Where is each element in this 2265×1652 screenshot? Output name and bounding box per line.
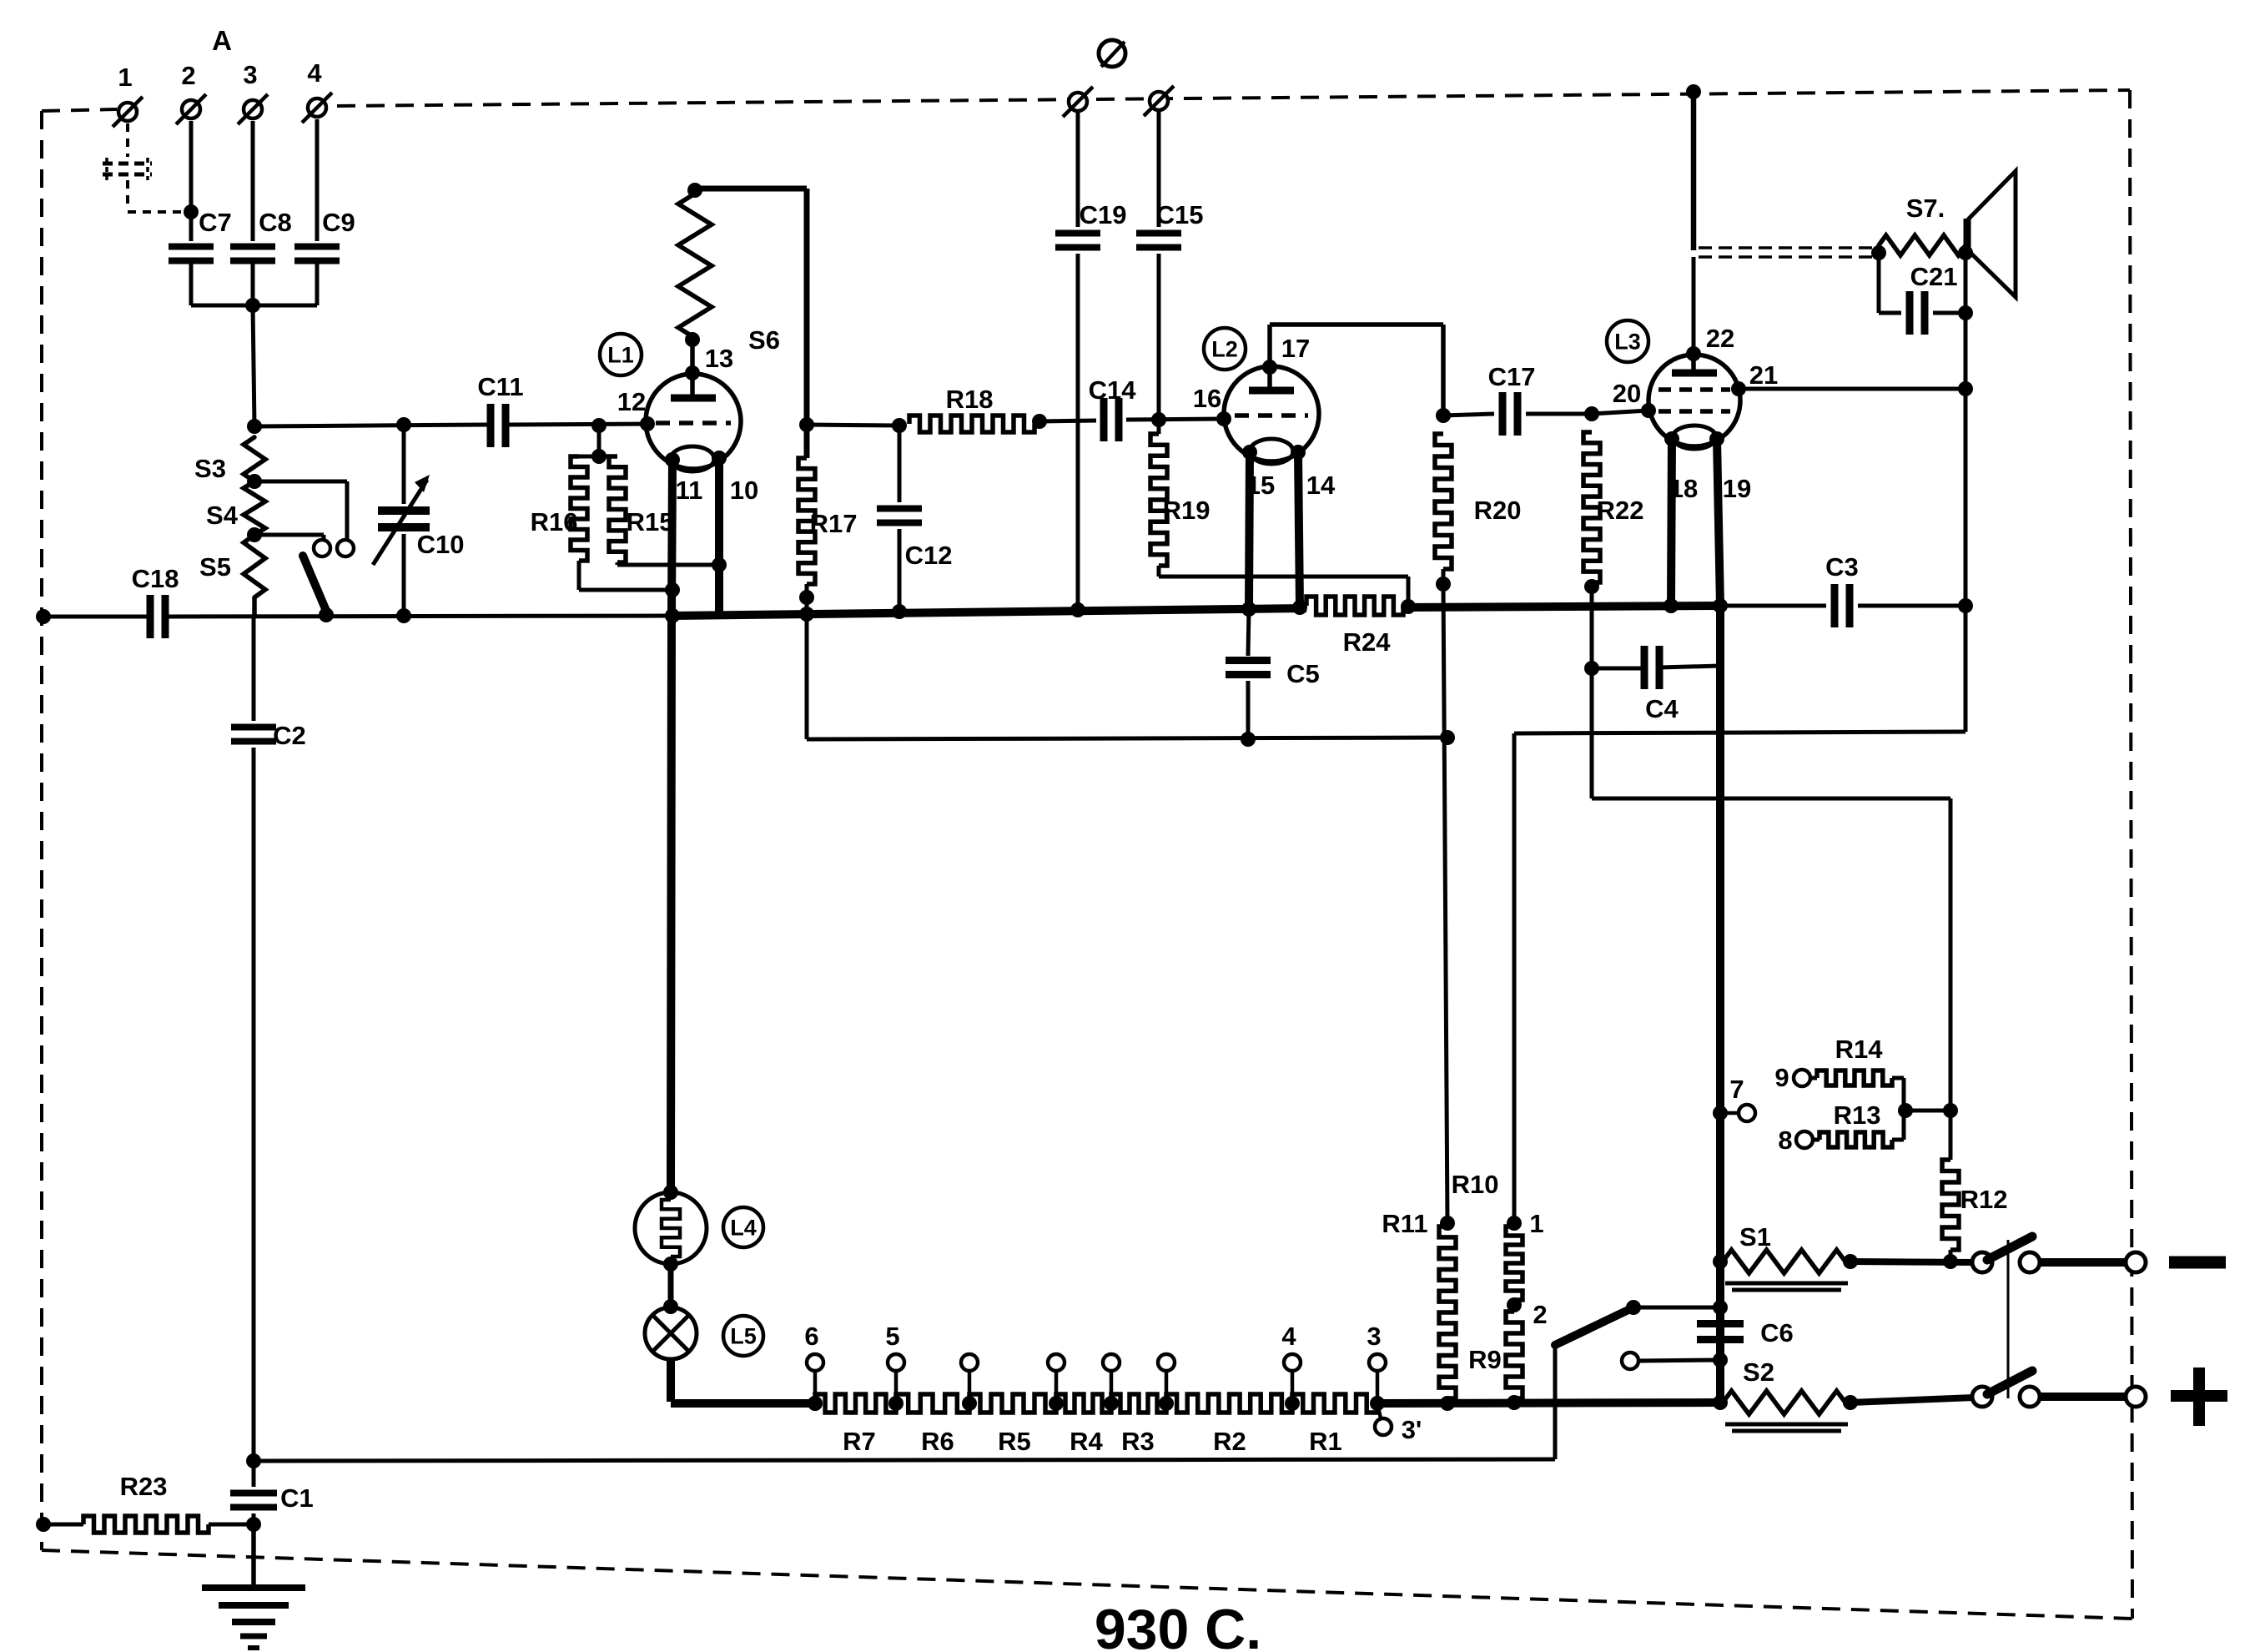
wire down to pin22 (1692, 257, 1696, 354)
svg-text:R5: R5 (998, 1427, 1031, 1456)
bottom bus to S2 (1377, 1403, 1720, 1403)
speaker double line (1699, 248, 1879, 257)
ground symbol (202, 1588, 305, 1648)
wire C14 to L2 grid (1126, 419, 1224, 420)
svg-text:S4: S4 (206, 501, 239, 530)
switch lower blade (1987, 1371, 2032, 1394)
svg-text:S5: S5 (199, 552, 231, 582)
wire R18 to C14 (1039, 421, 1096, 421)
svg-text:C12: C12 (905, 541, 953, 570)
tube L1 plate (671, 373, 716, 398)
svg-text:L3: L3 (1614, 330, 1641, 355)
svg-text:C1: C1 (280, 1483, 314, 1513)
wire terminal3 to C8 (251, 121, 255, 241)
switch lower output bar (2041, 1387, 2146, 1407)
lamp L4 envelope (635, 1192, 707, 1264)
svg-text:S1: S1 (1739, 1222, 1771, 1252)
node C5 bottom (1241, 732, 1256, 747)
node S2 right (1843, 1395, 1858, 1410)
node speaker column pin21 (1958, 381, 1973, 396)
node C19 on bus (1070, 602, 1085, 617)
svg-text:R23: R23 (120, 1472, 168, 1501)
node below C8 (245, 298, 260, 313)
pin 11 lead (665, 452, 702, 615)
svg-text:R4: R4 (1070, 1427, 1103, 1456)
wire L4 to L5 (663, 1264, 678, 1314)
node R20 bottom (1436, 569, 1451, 592)
switch lower pivot (1972, 1387, 1992, 1407)
terminal 3prime (1375, 1403, 1422, 1444)
svg-text:1: 1 (1529, 1209, 1543, 1238)
node R9 bottom on bus (1507, 1395, 1522, 1410)
wire AVC line A (807, 738, 1447, 739)
resistor R22 (1583, 432, 1643, 582)
chain tap terminal 6 (804, 1322, 823, 1411)
svg-text:C3: C3 (1825, 552, 1859, 582)
tube L1 grid (dashed) (656, 421, 731, 426)
tube L1 cathode (671, 446, 714, 471)
chain tap terminal 4 (1281, 1322, 1301, 1411)
minus symbol (2169, 1257, 2226, 1269)
terminal 9 (1774, 1063, 1810, 1092)
node R17 on bus (799, 607, 814, 622)
speaker horn (1966, 171, 2016, 297)
return wire up to switch (1553, 1345, 1558, 1459)
pin 17 node (1262, 334, 1310, 375)
wire C1 to ground (251, 1524, 256, 1587)
svg-text:8: 8 (1778, 1126, 1792, 1155)
capacitor C9 (294, 208, 355, 261)
contact circle tap1 (337, 540, 354, 557)
svg-text:R2: R2 (1213, 1427, 1246, 1456)
wire B down to R10 (1513, 733, 1517, 1223)
tube L2 plate (1249, 366, 1294, 390)
svg-text:L5: L5 (730, 1324, 757, 1349)
svg-text:C19: C19 (1080, 200, 1127, 229)
wire joining C7 C8 C9 bottoms (191, 261, 317, 305)
svg-text:S3: S3 (194, 454, 226, 483)
capacitor C15 line (1157, 110, 1161, 420)
antenna terminal 4 (302, 58, 332, 123)
pin 14 lead (1291, 445, 1336, 607)
svg-text:5: 5 (885, 1322, 899, 1351)
pin 13 node (685, 344, 733, 380)
lamp L4 filament (662, 1200, 680, 1257)
svg-text:C11: C11 (477, 372, 523, 401)
resistor chain R7-R1 (815, 1394, 1377, 1413)
svg-text:R13: R13 (1834, 1100, 1881, 1130)
svg-text:R7: R7 (843, 1427, 876, 1456)
coil S4 (206, 481, 265, 535)
svg-text:R6: R6 (921, 1427, 954, 1456)
svg-text:L1: L1 (607, 343, 634, 368)
wire R22 column down to line C (1590, 668, 1594, 798)
resistor R24 (1306, 597, 1416, 657)
svg-text:C6: C6 (1760, 1318, 1794, 1347)
pin 21 node (1731, 360, 1778, 396)
node S1 right (1843, 1254, 1858, 1269)
node above C1 (246, 1453, 261, 1468)
tube L2 grid (dashed) (1235, 413, 1308, 418)
svg-text:1: 1 (118, 63, 132, 92)
svg-text:R19: R19 (1163, 496, 1211, 525)
node S7 right (1958, 245, 1973, 260)
wire terminal4 to C9 (315, 119, 320, 241)
svg-text:C18: C18 (132, 564, 179, 593)
svg-text:15: 15 (1246, 471, 1275, 500)
capacitor C2 (231, 617, 306, 1461)
capacitor C17 (1443, 362, 1592, 436)
pin 19 lead (1709, 431, 1751, 606)
svg-text:C9: C9 (322, 208, 355, 237)
capacitor C4 (1592, 646, 1720, 723)
resistor R19 (1150, 420, 1210, 566)
svg-text:3: 3 (243, 60, 257, 89)
pin 20 node (1613, 379, 1656, 418)
svg-text:L4: L4 (730, 1216, 757, 1241)
svg-text:R11: R11 (1382, 1209, 1427, 1238)
antenna terminal 1 (113, 63, 143, 127)
wire C down to R13/R14 node (1949, 798, 1953, 1111)
node R23 left on border (36, 1517, 51, 1532)
resistor R18 (909, 385, 1047, 432)
svg-text:2: 2 (181, 61, 195, 90)
svg-text:R24: R24 (1343, 627, 1392, 657)
svg-text:18: 18 (1669, 474, 1698, 503)
node R23 C1 junction (246, 1517, 261, 1532)
node chain start (808, 1396, 823, 1411)
terminal 8 (1778, 1126, 1813, 1155)
node 1 (R10 top) (1507, 1209, 1544, 1238)
node C17 right (R22 top) (1584, 406, 1599, 421)
svg-text:14: 14 (1306, 471, 1336, 500)
node S7 left (1871, 245, 1886, 260)
svg-text:A: A (212, 25, 232, 56)
svg-text:C2: C2 (273, 721, 306, 750)
antenna terminal 3 (238, 60, 268, 124)
resistor R16 (531, 456, 599, 561)
capacitor C6 (1697, 1318, 1794, 1347)
svg-text:R12: R12 (1960, 1185, 2008, 1214)
wire R19 bottom to R24 right (1159, 566, 1408, 607)
wire main grid line L1 (254, 424, 647, 426)
svg-text:12: 12 (617, 387, 646, 416)
node C21 right (1958, 305, 1973, 320)
svg-text:R17: R17 (810, 509, 858, 538)
svg-text:17: 17 (1281, 334, 1310, 363)
tap node S4/S5 (247, 527, 262, 542)
node R22 bottom (1584, 579, 1599, 594)
resistor R11 (1382, 1209, 1456, 1398)
switch lower contact (2020, 1387, 2040, 1407)
wire L5 to bottom bus (671, 1359, 815, 1403)
wire R15 bottom to pin10 (617, 562, 719, 565)
svg-text:S2: S2 (1743, 1357, 1774, 1387)
capacitor C19 line (1076, 111, 1080, 610)
node L4 top (663, 1185, 678, 1200)
resistor S7 (speaker coil) (1879, 194, 1966, 255)
resistor R14 (1810, 1035, 1904, 1111)
svg-text:2: 2 (1533, 1300, 1547, 1329)
resistor R15 (599, 456, 673, 562)
return wire (long thin) (254, 1459, 1555, 1461)
node R11 top (1440, 1216, 1455, 1231)
node C6 top contact (1626, 1300, 1720, 1315)
trimmer capacitor (dashed) under terminal 1 (103, 123, 184, 212)
wire R16 bottom to cathode pin11 (579, 561, 672, 590)
node on top dashed line (1686, 84, 1701, 99)
node C4 left (1584, 661, 1599, 676)
switch upper contact (2020, 1252, 2040, 1272)
pin11 cathode column (thick) (671, 616, 672, 1192)
band switch blade (303, 556, 326, 611)
chain tap terminal 2 (961, 1354, 978, 1411)
resistor R12 (1942, 1111, 2007, 1262)
terminal C15 top (1144, 86, 1174, 116)
resistor R20 (1435, 434, 1521, 569)
capacitor C11 (477, 372, 523, 447)
svg-text:C21: C21 (1910, 262, 1958, 291)
switch upper output bar (2041, 1252, 2146, 1272)
resistor S6 (678, 194, 780, 355)
wire R20 column down (1443, 584, 1447, 1223)
wire tap1 to contact (254, 481, 347, 539)
svg-text:C17: C17 (1488, 362, 1536, 391)
tube L3 cathode (1673, 426, 1716, 449)
svg-text:C15: C15 (1156, 200, 1204, 229)
svg-text:21: 21 (1749, 360, 1778, 390)
node line A to R20/R11 column (1440, 730, 1455, 745)
wire junction to R18/C12 (807, 425, 899, 426)
node pin19 junction C3 (1713, 598, 1728, 613)
svg-text:C5: C5 (1286, 659, 1320, 688)
lamp L5 cross (653, 1316, 688, 1351)
wire C horizontal (1592, 797, 1950, 801)
svg-text:R10: R10 (1452, 1170, 1499, 1199)
title 930 C. (1095, 1598, 1261, 1652)
wire R22 column down to C4 (1590, 587, 1594, 668)
svg-text:C7: C7 (199, 208, 232, 237)
node C15 bottom on grid wire (1151, 412, 1166, 427)
C6 switch blade (1555, 1308, 1632, 1345)
node pin11 on bus (665, 608, 680, 623)
terminal 7 (1713, 1075, 1755, 1121)
svg-text:L2: L2 (1211, 337, 1238, 362)
capacitor C7 (169, 208, 232, 261)
variable capacitor C10 (373, 425, 464, 623)
svg-text:20: 20 (1613, 379, 1641, 408)
svg-text:3': 3' (1402, 1415, 1422, 1444)
node C6 top (1713, 1300, 1728, 1315)
svg-text:C10: C10 (417, 530, 465, 559)
node R17 bottom (799, 584, 814, 615)
svg-text:C14: C14 (1089, 375, 1137, 405)
node R16 on pin11 (665, 582, 680, 597)
svg-text:C4: C4 (1645, 694, 1679, 723)
node band switch on bus (319, 607, 334, 622)
pin 10 lead (712, 451, 758, 613)
resistor R17 (798, 458, 857, 584)
node grid2 junction L1 (799, 417, 814, 432)
wire tap2 to contact (254, 535, 324, 539)
pin 22 node (1686, 324, 1734, 361)
node S1 left (1713, 1254, 1728, 1269)
resistor R10 (1452, 1170, 1523, 1300)
node R13 R14 junction (1898, 1103, 1950, 1118)
node antenna coil top (247, 419, 262, 434)
svg-text:4: 4 (1281, 1322, 1296, 1351)
main bus left thin part (43, 616, 672, 617)
svg-text:S6: S6 (748, 325, 780, 355)
svg-text:R20: R20 (1474, 496, 1522, 525)
node at C7 top (dashed joins) (184, 204, 199, 219)
tube L3 label (1607, 320, 1648, 362)
wire S1 to switch (1850, 1262, 1974, 1262)
svg-text:R15: R15 (627, 507, 674, 536)
svg-text:11: 11 (676, 476, 703, 505)
tube L3 plate (1672, 354, 1717, 373)
node S6 bottom (685, 332, 700, 347)
svg-text:R14: R14 (1835, 1035, 1884, 1064)
node R20 top (C17 junction) (1436, 408, 1451, 423)
chassis dashed border left edge (40, 111, 43, 1550)
switch gang link (2007, 1240, 2010, 1398)
chain labels (843, 1427, 1342, 1456)
chain tap terminal 3 (1048, 1354, 1065, 1411)
switch upper pivot (1972, 1252, 1992, 1272)
tube L2 envelope (1224, 366, 1319, 461)
pin 16 node (1193, 384, 1231, 426)
resistor R13 (1813, 1100, 1904, 1147)
svg-text:R3: R3 (1121, 1427, 1155, 1456)
capacitor C14 (1089, 375, 1137, 441)
node L4 bottom (663, 1257, 678, 1272)
capacitor C8 (230, 208, 292, 261)
capacitor C21 (1879, 253, 1966, 335)
node S6 top (687, 183, 702, 198)
svg-text:930 C.: 930 C. (1095, 1598, 1261, 1652)
coil S3 (194, 437, 265, 483)
wire S2 to switch (1850, 1398, 1974, 1403)
wire to L3 grid (1592, 410, 1648, 414)
tube L3 envelope (1648, 355, 1740, 446)
capacitor C19 (1055, 200, 1126, 248)
node pin18 bus tee (1664, 598, 1679, 613)
chain tap terminal 3 (1367, 1322, 1386, 1411)
wire plate17 elbow to R20 top (1270, 325, 1443, 416)
capacitor C5 (1226, 609, 1320, 739)
wire B right vertical (1964, 606, 1968, 732)
tube L2 label (1204, 328, 1246, 370)
resistor R23 (43, 1472, 254, 1533)
wire terminal2 to C7 (189, 121, 194, 241)
tube L1 label (600, 334, 642, 375)
pin 12 node (617, 387, 655, 431)
wire pin21 to speaker column (1739, 387, 1966, 391)
chain tap terminal 5 (1158, 1354, 1175, 1411)
svg-text:S7.: S7. (1906, 194, 1945, 223)
svg-text:R22: R22 (1597, 496, 1644, 525)
svg-text:16: 16 (1193, 384, 1221, 413)
tube L2 cathode (1250, 439, 1293, 464)
node R12 top (1943, 1103, 1958, 1118)
lamp L5 envelope (645, 1307, 697, 1359)
node pin14 on bus (1292, 600, 1307, 615)
node R16 R15 tops (591, 449, 607, 464)
capacitor C18 (132, 564, 179, 638)
svg-text:10: 10 (730, 476, 758, 505)
tube L1 envelope (646, 374, 741, 469)
vertical supply/R17 line upper (804, 189, 810, 458)
wire S6 top to plate supply line (695, 186, 807, 192)
pin 18 lead (1664, 431, 1698, 606)
coil S5 (199, 535, 265, 617)
node C3 right (1958, 598, 1973, 613)
node 2 (R10/R9 junction) (1507, 1297, 1548, 1329)
pin 15 lead (1242, 445, 1275, 609)
chassis dashed border top-left stub (42, 109, 117, 111)
svg-text:R9: R9 (1468, 1345, 1502, 1374)
capacitor C3 (1720, 552, 1966, 627)
wire R17 line below bus (AVC line A down) (805, 615, 809, 739)
node C10 top (396, 417, 411, 432)
svg-text:19: 19 (1723, 474, 1751, 503)
svg-text:R18: R18 (946, 385, 994, 414)
terminal C19 top (1063, 87, 1093, 117)
node R11 bottom on bus (1440, 1396, 1455, 1411)
chassis dashed border top edge (337, 90, 2130, 106)
chain tap terminal 5 (885, 1322, 904, 1411)
rheostat S2 (1723, 1357, 1848, 1431)
svg-text:22: 22 (1706, 324, 1734, 353)
node C6 bottom (1713, 1352, 1728, 1367)
chassis dashed border bottom edge (42, 1550, 2132, 1619)
svg-text:R1: R1 (1309, 1427, 1342, 1456)
wire grid branch down (597, 426, 601, 456)
resistor R9 (1468, 1312, 1523, 1403)
svg-text:C8: C8 (259, 208, 292, 237)
wire down to antenna coil node (253, 305, 254, 426)
node R15 on pin10 (712, 557, 727, 572)
svg-text:R16: R16 (531, 507, 578, 536)
lamp L4 label (723, 1207, 763, 1247)
capacitor C15 (1136, 200, 1203, 248)
node S2 left (1713, 1395, 1728, 1410)
wire B horizontal (AVC feed) (1514, 732, 1966, 733)
switch upper blade (1987, 1236, 2032, 1260)
chain tap terminal 4 (1103, 1354, 1120, 1411)
vertical feed to output/speaker (1691, 92, 1697, 250)
node R12 bottom on S1 wire (1943, 1254, 1958, 1269)
svg-text:6: 6 (804, 1322, 818, 1351)
label A (212, 25, 232, 56)
top circle terminal (1099, 40, 1125, 67)
svg-text:9: 9 (1774, 1063, 1789, 1092)
node bus on left border (36, 609, 51, 624)
capacitor C1 (230, 1461, 314, 1524)
capacitor C12 (877, 418, 952, 619)
svg-text:3: 3 (1367, 1322, 1381, 1351)
lamp L5 label (723, 1316, 763, 1356)
wire pin13 to S6 (690, 338, 695, 373)
plus symbol (2171, 1367, 2227, 1426)
rheostat S1 (1723, 1222, 1848, 1290)
main bus (thick) (672, 606, 1720, 616)
C6 lower open contact (1622, 1352, 1720, 1369)
antenna terminal 2 (176, 61, 206, 124)
node pin15 on bus (1241, 602, 1256, 617)
pin19 column (thick) (1716, 606, 1724, 1403)
